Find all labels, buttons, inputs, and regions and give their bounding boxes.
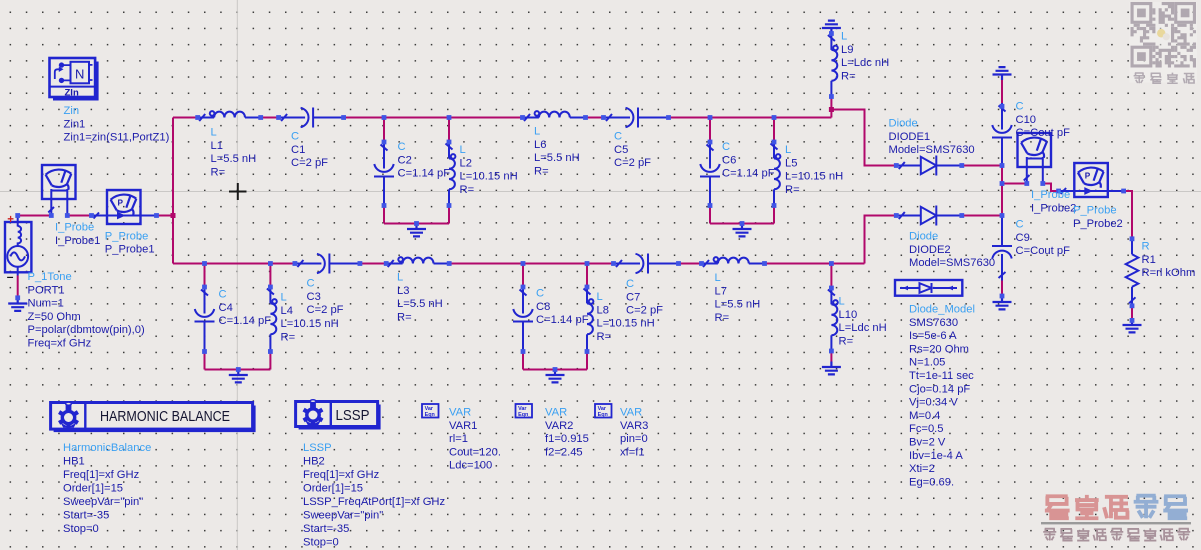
wire: tank1 bottom bar	[384, 223, 449, 225]
capacitor C8 (shunt)	[513, 287, 533, 352]
svg-text:L5: L5	[785, 157, 797, 169]
junction squares / pins	[15, 31, 1134, 372]
svg-text:L: L	[785, 144, 791, 156]
svg-text:Cout=120.: Cout=120.	[449, 446, 501, 458]
wire: L7 to corner	[765, 263, 865, 265]
svg-text:P_Probe: P_Probe	[1073, 205, 1117, 217]
wire: I_Probe2 stub	[1002, 183, 1027, 185]
capacitor C7	[614, 254, 679, 274]
svg-text:I_Probe: I_Probe	[55, 222, 94, 234]
svg-text:R=: R=	[597, 331, 612, 343]
wire: tank3 bottom bar	[205, 369, 271, 371]
svg-text:L: L	[281, 292, 287, 304]
svg-text:xf=f1: xf=f1	[620, 446, 645, 458]
svg-text:pin=0: pin=0	[620, 433, 648, 445]
wire: C6 bottom lead	[709, 206, 711, 224]
current probe I_Probe1	[42, 165, 76, 216]
svg-text:C=1.14 pF: C=1.14 pF	[398, 168, 451, 180]
ground: L9 top (inverted)	[822, 21, 841, 34]
capacitor C9 (output, flipped)	[992, 216, 1012, 281]
power probe P_Probe1	[92, 190, 157, 224]
svg-text:L=10.15 nH: L=10.15 nH	[460, 171, 518, 183]
wire: P_Probe2 to R1	[1124, 191, 1132, 239]
svg-text:Ibv=1e-4 A: Ibv=1e-4 A	[909, 450, 963, 462]
svg-text:C: C	[536, 288, 544, 300]
wire: C7 to L7	[679, 263, 702, 265]
svg-text:P_Probe1: P_Probe1	[105, 244, 155, 256]
svg-text:R=: R=	[211, 166, 226, 178]
svg-text:–: –	[7, 269, 14, 283]
svg-text:R=: R=	[534, 165, 549, 177]
svg-text:L=5.5 nH: L=5.5 nH	[211, 153, 257, 165]
svg-text:Xti=2: Xti=2	[909, 463, 935, 475]
svg-text:DIODE2: DIODE2	[909, 244, 951, 256]
wire: top row into L1	[173, 117, 198, 119]
inductor L10 (dc feed)	[828, 288, 838, 351]
inductor L6	[523, 111, 586, 121]
svg-text:R=: R=	[841, 70, 856, 82]
wire: L3 to shunt tank node C	[449, 263, 613, 265]
wire: riser to DIODE2	[865, 216, 897, 264]
svg-text:C=1.14 pF: C=1.14 pF	[722, 168, 775, 180]
svg-text:LSSP: LSSP	[336, 407, 370, 424]
watermark underline	[1041, 522, 1191, 524]
svg-text:I_Probe2: I_Probe2	[1031, 202, 1076, 214]
svg-text:R: R	[1142, 241, 1150, 253]
svg-text:Stop=0: Stop=0	[303, 537, 339, 549]
svg-text:Diode_Model: Diode_Model	[909, 304, 975, 316]
ground: tank3 (C4 L4)	[229, 370, 248, 383]
svg-text:VAR: VAR	[620, 407, 642, 419]
svg-text:VAR2: VAR2	[545, 420, 573, 432]
VAR2 equation block	[516, 404, 533, 418]
svg-text:L: L	[715, 272, 721, 284]
svg-text:Z=50 Ohm: Z=50 Ohm	[28, 311, 81, 323]
svg-text:P_Probe2: P_Probe2	[1073, 218, 1123, 230]
svg-text:LSSP: LSSP	[303, 442, 332, 454]
svg-text:VAR1: VAR1	[449, 420, 477, 432]
resistor R1	[1126, 239, 1139, 306]
svg-text:L=5.5 nH: L=5.5 nH	[397, 298, 443, 310]
capacitor C2 (shunt)	[374, 142, 394, 207]
svg-text:C10: C10	[1016, 114, 1037, 126]
svg-text:C: C	[1016, 219, 1024, 231]
svg-text:DIODE1: DIODE1	[889, 131, 931, 143]
wire: C1 to shunt tank node A	[344, 117, 523, 119]
ground: L10 bottom	[822, 362, 841, 375]
svg-text:HB1: HB1	[63, 456, 85, 468]
svg-text:Eg=0.69.: Eg=0.69.	[909, 476, 954, 488]
HARMONIC BALANCE controller block HB1	[51, 402, 256, 432]
watermark QR code	[1130, 2, 1198, 83]
svg-text:ZIn: ZIn	[65, 88, 79, 99]
wire: C2 top lead	[383, 118, 385, 143]
svg-text:Freq=xf GHz: Freq=xf GHz	[28, 338, 92, 350]
Zin measurement block Zin1	[50, 58, 99, 101]
origin cross marker	[229, 183, 247, 200]
watermark wechat text	[1134, 73, 1195, 84]
svg-text:HB2: HB2	[303, 456, 325, 468]
svg-text:C2: C2	[398, 154, 412, 166]
svg-text:Cjo=0.14 pF: Cjo=0.14 pF	[909, 383, 970, 395]
wire: C8 top lead	[522, 264, 524, 288]
svg-text:L=5.5 nH: L=5.5 nH	[715, 299, 761, 311]
svg-text:rl=1: rl=1	[449, 433, 468, 445]
svg-text:L3: L3	[397, 285, 409, 297]
svg-text:Is=5e-6 A: Is=5e-6 A	[909, 330, 957, 342]
svg-text:L=Ldc nH: L=Ldc nH	[841, 57, 889, 69]
svg-text:R=rl kOhm: R=rl kOhm	[1142, 267, 1196, 279]
wire: L6 to C5	[586, 117, 604, 119]
capacitor C3	[295, 254, 360, 274]
svg-text:C7: C7	[626, 291, 640, 303]
svg-text:Vj=0.34 V: Vj=0.34 V	[909, 397, 958, 409]
svg-text:Model=SMS7630: Model=SMS7630	[889, 144, 975, 156]
wire: tank4 bottom bar	[523, 369, 587, 371]
capacitor C4 (shunt)	[195, 287, 215, 352]
svg-text:Order[1]=15: Order[1]=15	[63, 483, 123, 495]
svg-text:C: C	[398, 141, 406, 153]
wire: tank2 bottom bar	[710, 223, 774, 225]
wire: L2 bottom lead	[448, 206, 450, 224]
svg-text:Fc=0.5: Fc=0.5	[909, 423, 944, 435]
inductor L4 (shunt)	[267, 287, 277, 350]
svg-text:R=: R=	[281, 331, 296, 343]
svg-text:L=Ldc nH: L=Ldc nH	[839, 322, 887, 334]
wire: L2 top lead	[448, 118, 450, 143]
svg-text:SweepVar="pin": SweepVar="pin"	[63, 496, 143, 508]
svg-text:P_Probe: P_Probe	[105, 230, 149, 242]
wire: C2 bottom lead	[383, 206, 385, 224]
svg-text:L: L	[534, 126, 540, 138]
svg-text:R=: R=	[460, 184, 475, 196]
wire: L10 tap lead	[830, 264, 832, 289]
svg-text:Diode: Diode	[889, 118, 918, 130]
svg-text:P=polar(dbmtow(pin),0): P=polar(dbmtow(pin),0)	[28, 324, 145, 336]
wire: R1 to ground	[1131, 306, 1133, 321]
wire: C9 to ground	[1001, 281, 1003, 297]
svg-text:C5: C5	[614, 144, 628, 156]
svg-text:L=10.15 nH: L=10.15 nH	[281, 318, 339, 330]
svg-text:VAR3: VAR3	[620, 420, 648, 432]
inductor L2 (shunt)	[446, 142, 456, 205]
svg-text:C: C	[626, 278, 634, 290]
inductor L7	[702, 257, 765, 267]
svg-text:Stop=0: Stop=0	[63, 523, 99, 535]
svg-text:Rs=20 Ohm: Rs=20 Ohm	[909, 343, 969, 355]
svg-text:I_Probe: I_Probe	[1031, 189, 1070, 201]
svg-text:L10: L10	[839, 309, 858, 321]
svg-text:P: P	[1085, 171, 1091, 180]
svg-text:+: +	[7, 214, 14, 226]
svg-text:Start=-35: Start=-35	[303, 523, 349, 535]
wire: jog to DIODE1	[831, 110, 896, 166]
svg-text:L=10.15 nH: L=10.15 nH	[597, 318, 655, 330]
ground: source	[8, 298, 27, 311]
ground: tank4 (C8 L8)	[546, 370, 565, 383]
svg-text:L9: L9	[841, 44, 853, 56]
svg-text:C: C	[291, 131, 299, 143]
svg-text:C: C	[219, 289, 227, 301]
svg-text:VAR: VAR	[449, 407, 471, 419]
svg-text:PORT1: PORT1	[28, 284, 65, 296]
diode DIODE1	[896, 156, 962, 176]
svg-text:C9: C9	[1016, 232, 1030, 244]
svg-text:SweepVar="pin": SweepVar="pin"	[303, 510, 383, 522]
svg-text:L1: L1	[211, 140, 223, 152]
svg-text:VAR: VAR	[545, 407, 567, 419]
svg-text:C=1.14 pF: C=1.14 pF	[219, 315, 272, 327]
svg-text:L: L	[597, 291, 603, 303]
svg-text:C=Cout pF: C=Cout pF	[1016, 245, 1071, 257]
svg-text:C=Cout pF: C=Cout pF	[1016, 127, 1071, 139]
svg-text:L7: L7	[715, 285, 727, 297]
svg-text:C=2 pF: C=2 pF	[307, 304, 344, 316]
wire: C4 bottom lead	[204, 352, 206, 370]
diode DIODE2	[896, 206, 962, 226]
wire: C6 top lead	[709, 118, 711, 143]
svg-text:Num=1: Num=1	[28, 298, 64, 310]
svg-text:L: L	[460, 144, 466, 156]
svg-text:Start=-35: Start=-35	[63, 510, 109, 522]
svg-text:L8: L8	[597, 304, 609, 316]
wire: source to I_Probe1	[18, 215, 52, 217]
svg-text:L: L	[211, 127, 217, 139]
ground: tank1 (C2 L2)	[407, 224, 426, 237]
wire: input vertical branch	[172, 118, 174, 264]
svg-text:C=2 pF: C=2 pF	[614, 157, 651, 169]
svg-text:Freq[1]=xf GHz: Freq[1]=xf GHz	[63, 469, 140, 481]
svg-text:L=5.5 nH: L=5.5 nH	[534, 152, 580, 164]
wire: L4 top lead	[269, 264, 271, 288]
VAR3 equation block	[595, 404, 612, 418]
svg-text:Freq[1]=xf GHz: Freq[1]=xf GHz	[303, 469, 380, 481]
wire: P_Probe1 to input node	[157, 215, 174, 217]
svg-text:R=: R=	[785, 184, 800, 196]
svg-text:C6: C6	[722, 154, 736, 166]
svg-text:C4: C4	[219, 302, 233, 314]
wire: L10 to ground	[830, 351, 832, 362]
svg-text:Bv=2 V: Bv=2 V	[909, 437, 946, 449]
wire: L5 top lead	[773, 118, 775, 143]
wire: bottom row from input	[173, 263, 295, 265]
inductor L3	[386, 257, 449, 267]
inductor L8 (shunt)	[584, 287, 594, 350]
wire: DIODE2 to output node	[962, 215, 1002, 217]
wire: top right riser to L9	[830, 97, 832, 118]
current probe I_Probe2	[1018, 133, 1052, 184]
svg-text:Ldc=100: Ldc=100	[449, 460, 492, 472]
svg-text:C=2 pF: C=2 pF	[291, 157, 328, 169]
svg-text:L: L	[841, 31, 847, 43]
inductor L9 (dc feed)	[828, 34, 838, 97]
svg-text:R=: R=	[839, 335, 854, 347]
svg-text:C8: C8	[536, 301, 550, 313]
wire: L5 bottom lead	[773, 206, 775, 224]
capacitor C1	[279, 108, 344, 128]
ground: tank2 (C6 L5)	[733, 224, 752, 237]
svg-text:Zin1=zin(S11,PortZ1): Zin1=zin(S11,PortZ1)	[64, 132, 170, 144]
junction: input node	[171, 213, 176, 218]
svg-text:M=0.4: M=0.4	[909, 410, 940, 422]
wire: ground lead above C10	[1001, 80, 1003, 106]
svg-text:LSSP_FreqAtPort[1]=xf GHz: LSSP_FreqAtPort[1]=xf GHz	[303, 496, 445, 508]
capacitor C10 (output)	[992, 103, 1012, 168]
wire: C8 bottom lead	[522, 352, 524, 370]
svg-text:C: C	[307, 278, 315, 290]
watermark title	[1045, 495, 1188, 518]
wire: output vertical bus	[1001, 166, 1003, 216]
wire: L8 top lead	[586, 264, 588, 288]
watermark subtitle	[1043, 528, 1190, 540]
svg-text:L4: L4	[281, 305, 293, 317]
svg-text:Tt=1e-11 sec: Tt=1e-11 sec	[909, 370, 974, 382]
VAR1 equation block	[422, 404, 439, 418]
svg-text:P: P	[118, 198, 124, 207]
svg-text:L2: L2	[460, 157, 472, 169]
svg-text:C=2 pF: C=2 pF	[626, 305, 663, 317]
svg-text:R1: R1	[1142, 254, 1156, 266]
svg-text:SMS7630: SMS7630	[909, 317, 958, 329]
capacitor C6 (shunt)	[700, 142, 720, 207]
svg-text:Zin1: Zin1	[64, 118, 86, 130]
svg-text:f1=0.915: f1=0.915	[545, 433, 589, 445]
wire: I_Probe2 to P_Probe2 jog	[1043, 184, 1059, 192]
junction: L9 tap	[829, 107, 834, 112]
inductor L1	[198, 111, 261, 121]
wire: L8 bottom lead	[586, 352, 588, 370]
svg-text:R=: R=	[715, 312, 730, 324]
svg-text:Order[1]=15: Order[1]=15	[303, 483, 363, 495]
wire: DIODE1 to output node	[962, 165, 1002, 167]
svg-text:L: L	[397, 272, 403, 284]
svg-text:N=1.05: N=1.05	[909, 357, 945, 369]
inductor L5 (shunt)	[771, 142, 781, 205]
svg-text:P_1Tone: P_1Tone	[28, 271, 72, 283]
svg-text:C: C	[1016, 101, 1024, 113]
svg-text:C: C	[722, 141, 730, 153]
capacitor C5	[604, 108, 669, 128]
svg-text:C: C	[614, 131, 622, 143]
source PORT1 P_1Tone	[5, 216, 31, 276]
svg-text:N: N	[75, 67, 84, 82]
svg-text:C3: C3	[307, 291, 321, 303]
wire: C5 to shunt tank node B	[669, 117, 832, 119]
svg-text:Zin: Zin	[64, 105, 80, 117]
ground: C9 bottom	[993, 297, 1012, 310]
svg-text:HarmonicBalance: HarmonicBalance	[63, 442, 151, 454]
ground: C10 top (inverted)	[993, 67, 1012, 80]
svg-text:L6: L6	[534, 139, 546, 151]
svg-text:I_Probe1: I_Probe1	[55, 235, 100, 247]
wire: L4 bottom lead	[269, 352, 271, 370]
svg-text:L: L	[839, 296, 845, 308]
svg-text:HARMONIC BALANCE: HARMONIC BALANCE	[100, 409, 230, 425]
power probe P_Probe2	[1059, 163, 1124, 197]
wire: L1 to C1	[261, 117, 279, 119]
svg-text:Model=SMS7630: Model=SMS7630	[909, 257, 995, 269]
LSSP controller block HB2	[296, 400, 381, 430]
svg-text:f2=2.45: f2=2.45	[545, 446, 583, 458]
wire: C4 top lead	[204, 264, 206, 288]
svg-text:R=: R=	[397, 311, 412, 323]
svg-text:Diode: Diode	[909, 231, 938, 243]
wire: C3 to L3	[360, 263, 386, 265]
wire: I_Probe1 to P_Probe1	[67, 215, 91, 217]
Diode_Model SMS7630 block	[895, 280, 962, 296]
svg-text:C=1.14 pF: C=1.14 pF	[536, 314, 589, 326]
ground: R1 bottom	[1123, 320, 1142, 333]
wire: source bottom to ground	[17, 276, 19, 299]
svg-text:C1: C1	[291, 144, 305, 156]
svg-text:L=10.15 nH: L=10.15 nH	[785, 171, 843, 183]
